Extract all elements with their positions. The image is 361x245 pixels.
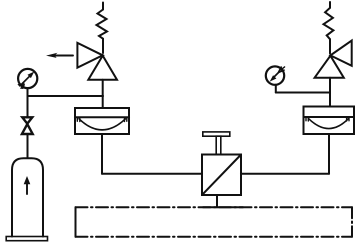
central jack support stem — [216, 195, 218, 207]
central jack diagonal — [202, 155, 240, 195]
wire supply line top left — [102, 3, 104, 10]
wire actuator A2 to pipe — [328, 134, 330, 174]
actuator A1 edge ticks — [77, 117, 127, 121]
gas cylinder base — [6, 237, 47, 241]
pressure regulator valve V1 bottom triangle — [88, 56, 117, 80]
vent arrow left — [46, 53, 73, 58]
wire supply line top right — [329, 2, 331, 8]
central jack unit body — [202, 155, 241, 196]
actuator A2 body — [304, 107, 355, 135]
actuator A2 top plate line — [304, 116, 355, 118]
spring S2 — [324, 8, 334, 39]
pressure gauge G1 — [17, 69, 37, 89]
wire spring to valve V3 — [329, 39, 331, 53]
actuator A1 diaphragm — [79, 119, 126, 130]
actuator A2 diaphragm — [309, 119, 349, 129]
machine bed right edge — [351, 207, 353, 237]
gas cylinder B1 body — [12, 158, 43, 236]
wire valve V2 to cylinder — [27, 134, 29, 158]
wire gauge G2 to regulator line — [276, 92, 330, 94]
pressure gauge G2 — [266, 66, 285, 84]
actuator A1 top plate line — [75, 116, 129, 118]
pressure regulator valve V3 bottom triangle — [315, 56, 344, 78]
wire actuator A1 to pipe — [101, 134, 103, 174]
wire gauge G2 drop — [275, 85, 277, 93]
pressure regulator valve V3 right triangle — [330, 41, 351, 66]
wire spring to valve V1 — [102, 39, 104, 53]
shut-off valve V2 lower triangle — [22, 124, 33, 134]
wire valve V3 to actuator A2 — [329, 78, 331, 107]
pressure regulator valve V1 left triangle — [77, 43, 102, 68]
gas cylinder flow arrow — [24, 176, 31, 194]
actuator A1 body — [75, 108, 129, 134]
central jack T-handle bar — [203, 132, 230, 136]
wire gauge G1 drop — [27, 88, 29, 96]
spring S1 — [97, 10, 108, 39]
machine bed bottom dash-dot line — [76, 236, 353, 238]
shut-off valve V2 upper triangle — [22, 117, 32, 123]
machine bed top dash-dot line — [76, 206, 353, 208]
central jack T-handle stem — [216, 136, 221, 154]
wire gauge G1 to regulator line — [28, 95, 104, 97]
wire valve V1 to actuator A1 — [102, 80, 104, 108]
wire gauge junction to shutoff valve — [27, 96, 29, 117]
pipe left to central unit — [102, 173, 202, 175]
pipe central unit to right actuator — [241, 173, 329, 175]
machine bed left edge — [75, 207, 77, 237]
actuator A2 edge ticks — [306, 117, 349, 121]
